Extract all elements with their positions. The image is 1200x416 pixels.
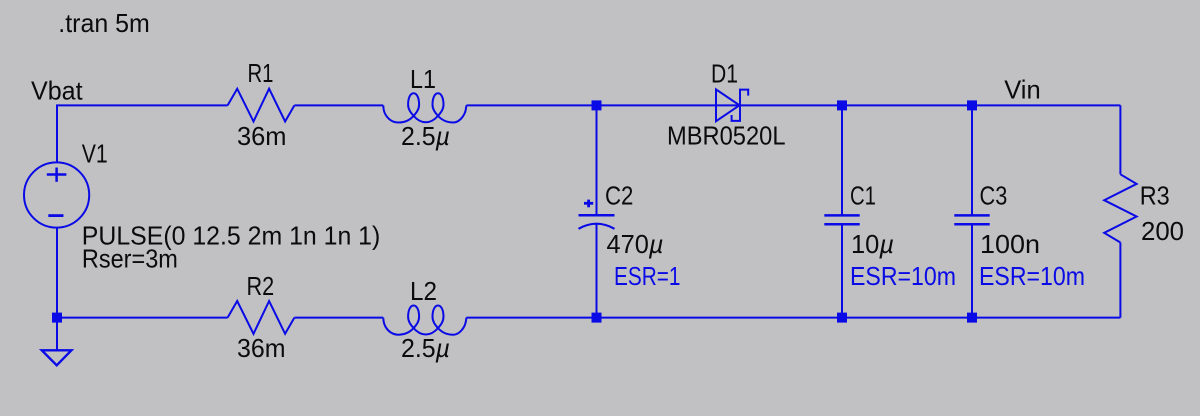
wire V1 bottom to bottom rail [56,228,58,318]
svg-text:MBR0520L: MBR0520L [667,121,786,151]
capacitor C1 wire top [841,105,843,215]
junction C2 bottom [592,313,602,323]
svg-text:L1: L1 [410,64,436,94]
svg-text:C2: C2 [605,181,633,211]
svg-text:.tran 5m: .tran 5m [58,8,150,38]
svg-text:ESR=1: ESR=1 [614,261,681,291]
junction C1 top [837,100,847,110]
svg-text:R3: R3 [1140,181,1170,211]
junction C2 top [592,100,602,110]
V1 minus sign [48,214,63,217]
svg-text:200: 200 [1141,216,1184,246]
svg-text:D1: D1 [711,58,738,88]
svg-text:C3: C3 [980,181,1008,211]
capacitor C2 plus mark [584,202,593,205]
capacitor C2 top plate [579,214,615,217]
capacitor C3 wire top [971,105,973,215]
voltage source V1 circle [24,162,89,227]
svg-text:R2: R2 [247,271,275,301]
svg-text:ESR=10m: ESR=10m [979,261,1085,291]
svg-text:470µ: 470µ [607,229,664,259]
wire R2 to left junction [57,317,228,319]
wire right side down to R3 [1119,105,1121,174]
junction ground/V1 [52,313,62,323]
svg-text:2.5µ: 2.5µ [401,121,450,151]
wire L2 to R2 [294,317,383,319]
svg-text:36m: 36m [237,333,286,363]
resistor R3 [1104,174,1136,242]
svg-text:ESR=10m: ESR=10m [850,261,956,291]
svg-text:Vbat: Vbat [31,76,83,106]
V1 plus sign [47,173,67,176]
capacitor C2 wire top [596,105,598,215]
diode D1 (schottky) [716,89,740,121]
svg-text:R1: R1 [248,58,274,88]
svg-text:10µ: 10µ [851,229,894,259]
svg-text:100n: 100n [980,229,1040,259]
capacitor C1 wire bottom [841,224,843,317]
capacitor C3 plates [954,214,989,217]
svg-text:C1: C1 [850,181,876,211]
svg-text:2.5µ: 2.5µ [401,333,450,363]
junction C3 top [967,100,977,110]
svg-text:Rser=3m: Rser=3m [82,243,178,273]
capacitor C3 wire bottom [971,224,973,317]
svg-text:36m: 36m [237,121,287,151]
resistor R1 [228,89,295,122]
wire bottom rail right (to L2) [466,317,1120,319]
capacitor C1 plates [824,214,859,217]
inductor L2 [383,306,466,335]
capacitor C2 bottom plate (polarized arc) [579,224,615,229]
junction C3 bottom [967,313,977,323]
ground stem [56,318,58,351]
svg-text:Vin: Vin [1004,74,1040,104]
resistor R2 [228,301,295,334]
ground symbol [42,350,72,365]
svg-text:V1: V1 [82,138,108,168]
wire top rail left (Vbat corner to R1) [57,105,228,162]
wire R3 to bottom rail [1119,243,1121,318]
inductor L1 [383,93,466,122]
svg-text:L2: L2 [410,276,437,306]
junction C1 bottom [837,313,847,323]
wire L1 to diode, junction at 596.5 [466,104,1120,106]
wire R1 to L1 [294,104,383,106]
capacitor C2 wire bottom [596,224,598,318]
